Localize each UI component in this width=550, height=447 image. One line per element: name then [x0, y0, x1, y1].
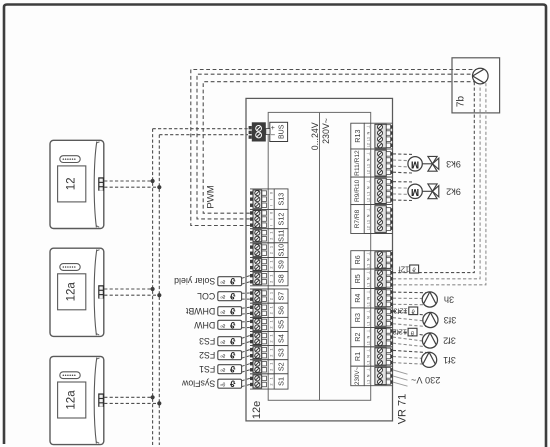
svg-text:S11: S11	[277, 230, 286, 242]
svg-text:0...24V: 0...24V	[310, 122, 320, 150]
terminal block R13	[351, 123, 393, 149]
wire eBUS to BUS terminal top pair	[153, 128, 248, 130]
svg-text:S4: S4	[277, 334, 286, 343]
controller VR 71 outer box	[246, 98, 393, 421]
wire sensor 12f circuit to 7b	[393, 272, 410, 274]
svg-text:1: 1	[269, 275, 274, 277]
svg-text:ϑᵒ: ϑᵒ	[220, 308, 225, 314]
terminal block S10	[250, 243, 288, 258]
svg-text:2: 2	[269, 238, 274, 240]
svg-text:S2: S2	[277, 362, 286, 371]
svg-text:7b: 7b	[456, 96, 467, 108]
svg-text:S9: S9	[277, 260, 286, 269]
svg-text:L2: L2	[366, 143, 371, 147]
svg-text:2: 2	[269, 326, 274, 328]
motorised valve 9k3	[408, 156, 461, 171]
svg-text:I: I	[269, 199, 274, 200]
svg-text:S3: S3	[277, 348, 286, 357]
terminal block S5	[250, 317, 288, 331]
svg-text:FS2: FS2	[199, 350, 215, 360]
svg-text:12a: 12a	[66, 282, 78, 302]
svg-text:L1: L1	[366, 137, 371, 141]
svg-text:S10: S10	[277, 244, 286, 257]
svg-text:ϑ: ϑ	[229, 276, 235, 286]
pump 3f2	[422, 333, 455, 348]
svg-text:ϑᵒ: ϑᵒ	[220, 352, 225, 358]
terminal block S6	[250, 303, 288, 317]
wire eBUS tap from control 12	[104, 180, 152, 182]
svg-text:1: 1	[269, 377, 274, 379]
svg-text:S6: S6	[277, 306, 286, 315]
terminal block BUS	[249, 122, 288, 141]
svg-text:ϑ: ϑ	[229, 379, 235, 389]
svg-text:N: N	[366, 316, 371, 319]
svg-text:N: N	[366, 277, 371, 280]
wire sensor FS3 to terminal	[242, 336, 250, 339]
svg-text:N: N	[366, 336, 371, 339]
svg-text:L1: L1	[366, 302, 371, 306]
terminal block S2	[250, 360, 288, 374]
svg-text:2: 2	[269, 355, 274, 357]
wire PWM cable outer	[191, 70, 476, 226]
wire relay to pump 3f1	[393, 350, 427, 352]
svg-text:R13: R13	[353, 130, 362, 143]
svg-text:R7/R8: R7/R8	[354, 209, 361, 228]
terminal block R4	[351, 289, 393, 308]
terminal block R9/R10	[351, 177, 393, 205]
svg-text:9k2: 9k2	[446, 186, 461, 196]
svg-text:1: 1	[269, 334, 274, 336]
svg-text:ϑᵒ: ϑᵒ	[220, 293, 225, 299]
pump 3h	[422, 292, 454, 307]
terminal block S12	[250, 209, 288, 228]
sensor 12f	[398, 265, 419, 274]
svg-text:9k3: 9k3	[446, 159, 461, 169]
svg-text:R4: R4	[353, 294, 362, 303]
svg-text:R9/R10: R9/R10	[354, 179, 361, 202]
svg-text:3f1: 3f1	[443, 355, 456, 365]
svg-text:ϑᵒ: ϑᵒ	[220, 381, 225, 387]
terminal block R3	[351, 308, 393, 328]
svg-text:3h: 3h	[444, 295, 454, 305]
svg-text:2: 2	[269, 383, 274, 385]
svg-text:1: 1	[269, 232, 274, 234]
svg-text:1: 1	[269, 260, 274, 262]
wire sensor DHWBt to terminal	[242, 307, 250, 308]
terminal block R6	[351, 251, 393, 269]
motorised valve 9k2	[408, 184, 461, 199]
sensor 12f3	[393, 307, 417, 316]
svg-text:2: 2	[269, 281, 274, 283]
svg-text:12: 12	[66, 178, 78, 191]
svg-text:VR 71: VR 71	[397, 394, 409, 425]
svg-text:S13: S13	[277, 193, 286, 206]
svg-text:ϑ: ϑ	[229, 306, 235, 316]
svg-text:L2: L2	[366, 226, 371, 230]
sensor DHW	[193, 320, 241, 330]
svg-text:ϑᵒ: ϑᵒ	[220, 366, 225, 372]
wire PWM cable middle	[197, 74, 473, 219]
svg-text:1: 1	[269, 363, 274, 365]
wire eBUS tap from control 12a second	[104, 396, 152, 398]
svg-text:SysFlow: SysFlow	[181, 379, 215, 389]
svg-text:1: 1	[269, 292, 274, 294]
sensor FS3	[199, 336, 242, 346]
svg-text:ϑ: ϑ	[412, 265, 416, 272]
svg-text:2: 2	[269, 252, 274, 254]
wire pump 7b power L	[393, 82, 486, 285]
svg-text:S1: S1	[277, 377, 286, 386]
svg-text:I: I	[269, 219, 274, 220]
pump symbol in 7b	[473, 68, 489, 84]
terminal block S7	[250, 289, 288, 303]
svg-text:1: 1	[269, 320, 274, 322]
svg-text:12e: 12e	[251, 401, 263, 419]
svg-text:DHWBt: DHWBt	[185, 306, 215, 316]
wire sensor 12f3 stub	[393, 310, 409, 312]
svg-text:DHW: DHW	[193, 320, 215, 330]
svg-text:L1: L1	[366, 341, 371, 345]
junction dots eBUS tap 12	[151, 179, 155, 183]
wire eBUS trunk - line	[152, 129, 154, 445]
terminal block R1	[351, 347, 393, 366]
terminal block 230V~	[351, 366, 393, 386]
wire relay to pump 3f2	[393, 331, 424, 335]
svg-text:ϑᵒ: ϑᵒ	[220, 322, 225, 328]
svg-text:R11/R12: R11/R12	[354, 150, 361, 176]
svg-text:S5: S5	[277, 320, 286, 329]
svg-text:1: 1	[269, 349, 274, 351]
svg-text:S8: S8	[277, 274, 286, 283]
terminal block R5	[351, 269, 393, 288]
svg-text:FS3: FS3	[199, 336, 215, 346]
svg-text:S7: S7	[277, 292, 286, 301]
wire sensor FS2 to terminal	[242, 350, 250, 353]
svg-text:BUS: BUS	[278, 124, 285, 139]
controller VR 71 inner board	[268, 112, 371, 400]
svg-text:L1: L1	[366, 192, 371, 196]
terminal block S9	[250, 258, 288, 272]
svg-text:R5: R5	[353, 274, 362, 283]
separator line 24V / 230V zones	[319, 112, 321, 400]
svg-text:L2: L2	[366, 198, 371, 202]
svg-text:2: 2	[269, 298, 274, 300]
svg-text:2: 2	[269, 341, 274, 343]
wire pump 7b power N	[393, 84, 480, 279]
svg-text:I: I	[269, 225, 274, 226]
wire PWM cable inner	[203, 82, 475, 214]
terminal block S4	[250, 332, 288, 346]
wire sensor DHW to terminal	[242, 320, 250, 323]
wire sensor Solar yield to terminal	[242, 276, 250, 279]
svg-text:1: 1	[269, 306, 274, 308]
pump 3f3	[423, 312, 457, 327]
svg-text:ϑᵒ: ϑᵒ	[220, 338, 225, 344]
svg-text:N: N	[366, 131, 371, 134]
svg-text:L1: L1	[366, 220, 371, 224]
svg-text:2: 2	[269, 369, 274, 371]
terminal block R2	[351, 327, 393, 346]
terminal block R11/R12	[351, 149, 393, 177]
svg-text:L2: L2	[366, 170, 371, 174]
svg-text:12f: 12f	[398, 265, 410, 274]
junction dots eBUS tap 12a first	[151, 287, 155, 291]
remote control 12a (first)	[50, 248, 104, 336]
svg-text:Solar yield: Solar yield	[174, 276, 215, 286]
wire relay to pump 3h	[393, 291, 426, 294]
pump box 7b	[452, 58, 500, 113]
svg-text:L1: L1	[366, 360, 371, 364]
svg-text:ϑ: ϑ	[229, 350, 235, 360]
pump 3f1	[422, 352, 456, 367]
svg-text:R1: R1	[353, 352, 362, 361]
wire relay to pump 3f3	[393, 312, 425, 315]
terminal block S13	[250, 189, 288, 210]
junction dots eBUS tap 12a second	[151, 395, 155, 399]
svg-text:L1: L1	[366, 264, 371, 268]
svg-text:R6: R6	[353, 255, 362, 264]
svg-text:R3: R3	[353, 313, 362, 322]
wire R11/R12 to valve 9k3	[393, 153, 412, 156]
svg-text:ϑ: ϑ	[229, 364, 235, 374]
svg-text:S12: S12	[277, 213, 286, 226]
wire eBUS trunk + line	[158, 135, 160, 445]
sensor SysFlow	[181, 379, 241, 389]
wire eBUS tap from control 12a first	[104, 288, 152, 290]
svg-text:2: 2	[269, 312, 274, 314]
svg-text:FS1: FS1	[199, 364, 215, 374]
svg-text:L1: L1	[366, 283, 371, 287]
svg-text:−: −	[270, 131, 275, 140]
svg-text:3f2: 3f2	[443, 336, 456, 346]
wire sensor SysFlow to terminal	[242, 378, 250, 380]
terminal block R7/R8	[351, 205, 393, 234]
sensor FS2	[199, 350, 242, 360]
svg-text:230 V~: 230 V~	[411, 375, 440, 385]
sensor COL	[197, 291, 242, 301]
svg-text:L1: L1	[366, 380, 371, 384]
sensor Solar yield	[174, 276, 242, 286]
svg-text:N: N	[366, 158, 371, 161]
wire sensor FS1 to terminal	[242, 364, 250, 367]
svg-text:PWM: PWM	[205, 185, 216, 208]
svg-text:M: M	[411, 158, 419, 169]
wire sensor COL to terminal	[242, 292, 250, 294]
svg-text:N: N	[366, 355, 371, 358]
svg-text:N: N	[366, 297, 371, 300]
svg-text:ϑ: ϑ	[229, 320, 235, 330]
remote control 12	[50, 140, 104, 228]
svg-text:L1: L1	[366, 164, 371, 168]
svg-text:L1: L1	[366, 322, 371, 326]
svg-text:R2: R2	[353, 332, 362, 341]
sensor DHWBt	[185, 306, 241, 316]
svg-text:ϑ: ϑ	[229, 336, 235, 346]
svg-text:12a: 12a	[66, 390, 78, 410]
terminal block S3	[250, 346, 288, 360]
svg-text:N: N	[366, 186, 371, 189]
remote control 12a (second)	[50, 356, 104, 444]
wire R9/R10 to valve 9k2	[393, 181, 412, 183]
svg-text:I: I	[269, 205, 274, 206]
svg-text:COL: COL	[197, 291, 215, 301]
svg-text:N: N	[366, 214, 371, 217]
terminal block S11	[250, 229, 288, 243]
svg-text:N: N	[366, 374, 371, 377]
svg-text:3f3: 3f3	[444, 315, 457, 325]
svg-text:N: N	[366, 258, 371, 261]
wire sensor 12f2 stub	[393, 331, 408, 333]
svg-text:2: 2	[269, 267, 274, 269]
terminal block S8	[250, 272, 288, 286]
svg-text:230V~: 230V~	[354, 367, 361, 385]
wire 230V mains supply	[393, 370, 408, 374]
sensor FS1	[199, 364, 242, 374]
svg-text:ϑᵒ: ϑᵒ	[220, 278, 225, 284]
svg-text:ϑ: ϑ	[229, 291, 235, 301]
svg-text:M: M	[411, 186, 419, 197]
sensor 12f2	[393, 328, 417, 337]
terminal block S1	[250, 374, 288, 389]
svg-text:1: 1	[269, 246, 274, 248]
svg-text:230V~: 230V~	[321, 118, 331, 144]
